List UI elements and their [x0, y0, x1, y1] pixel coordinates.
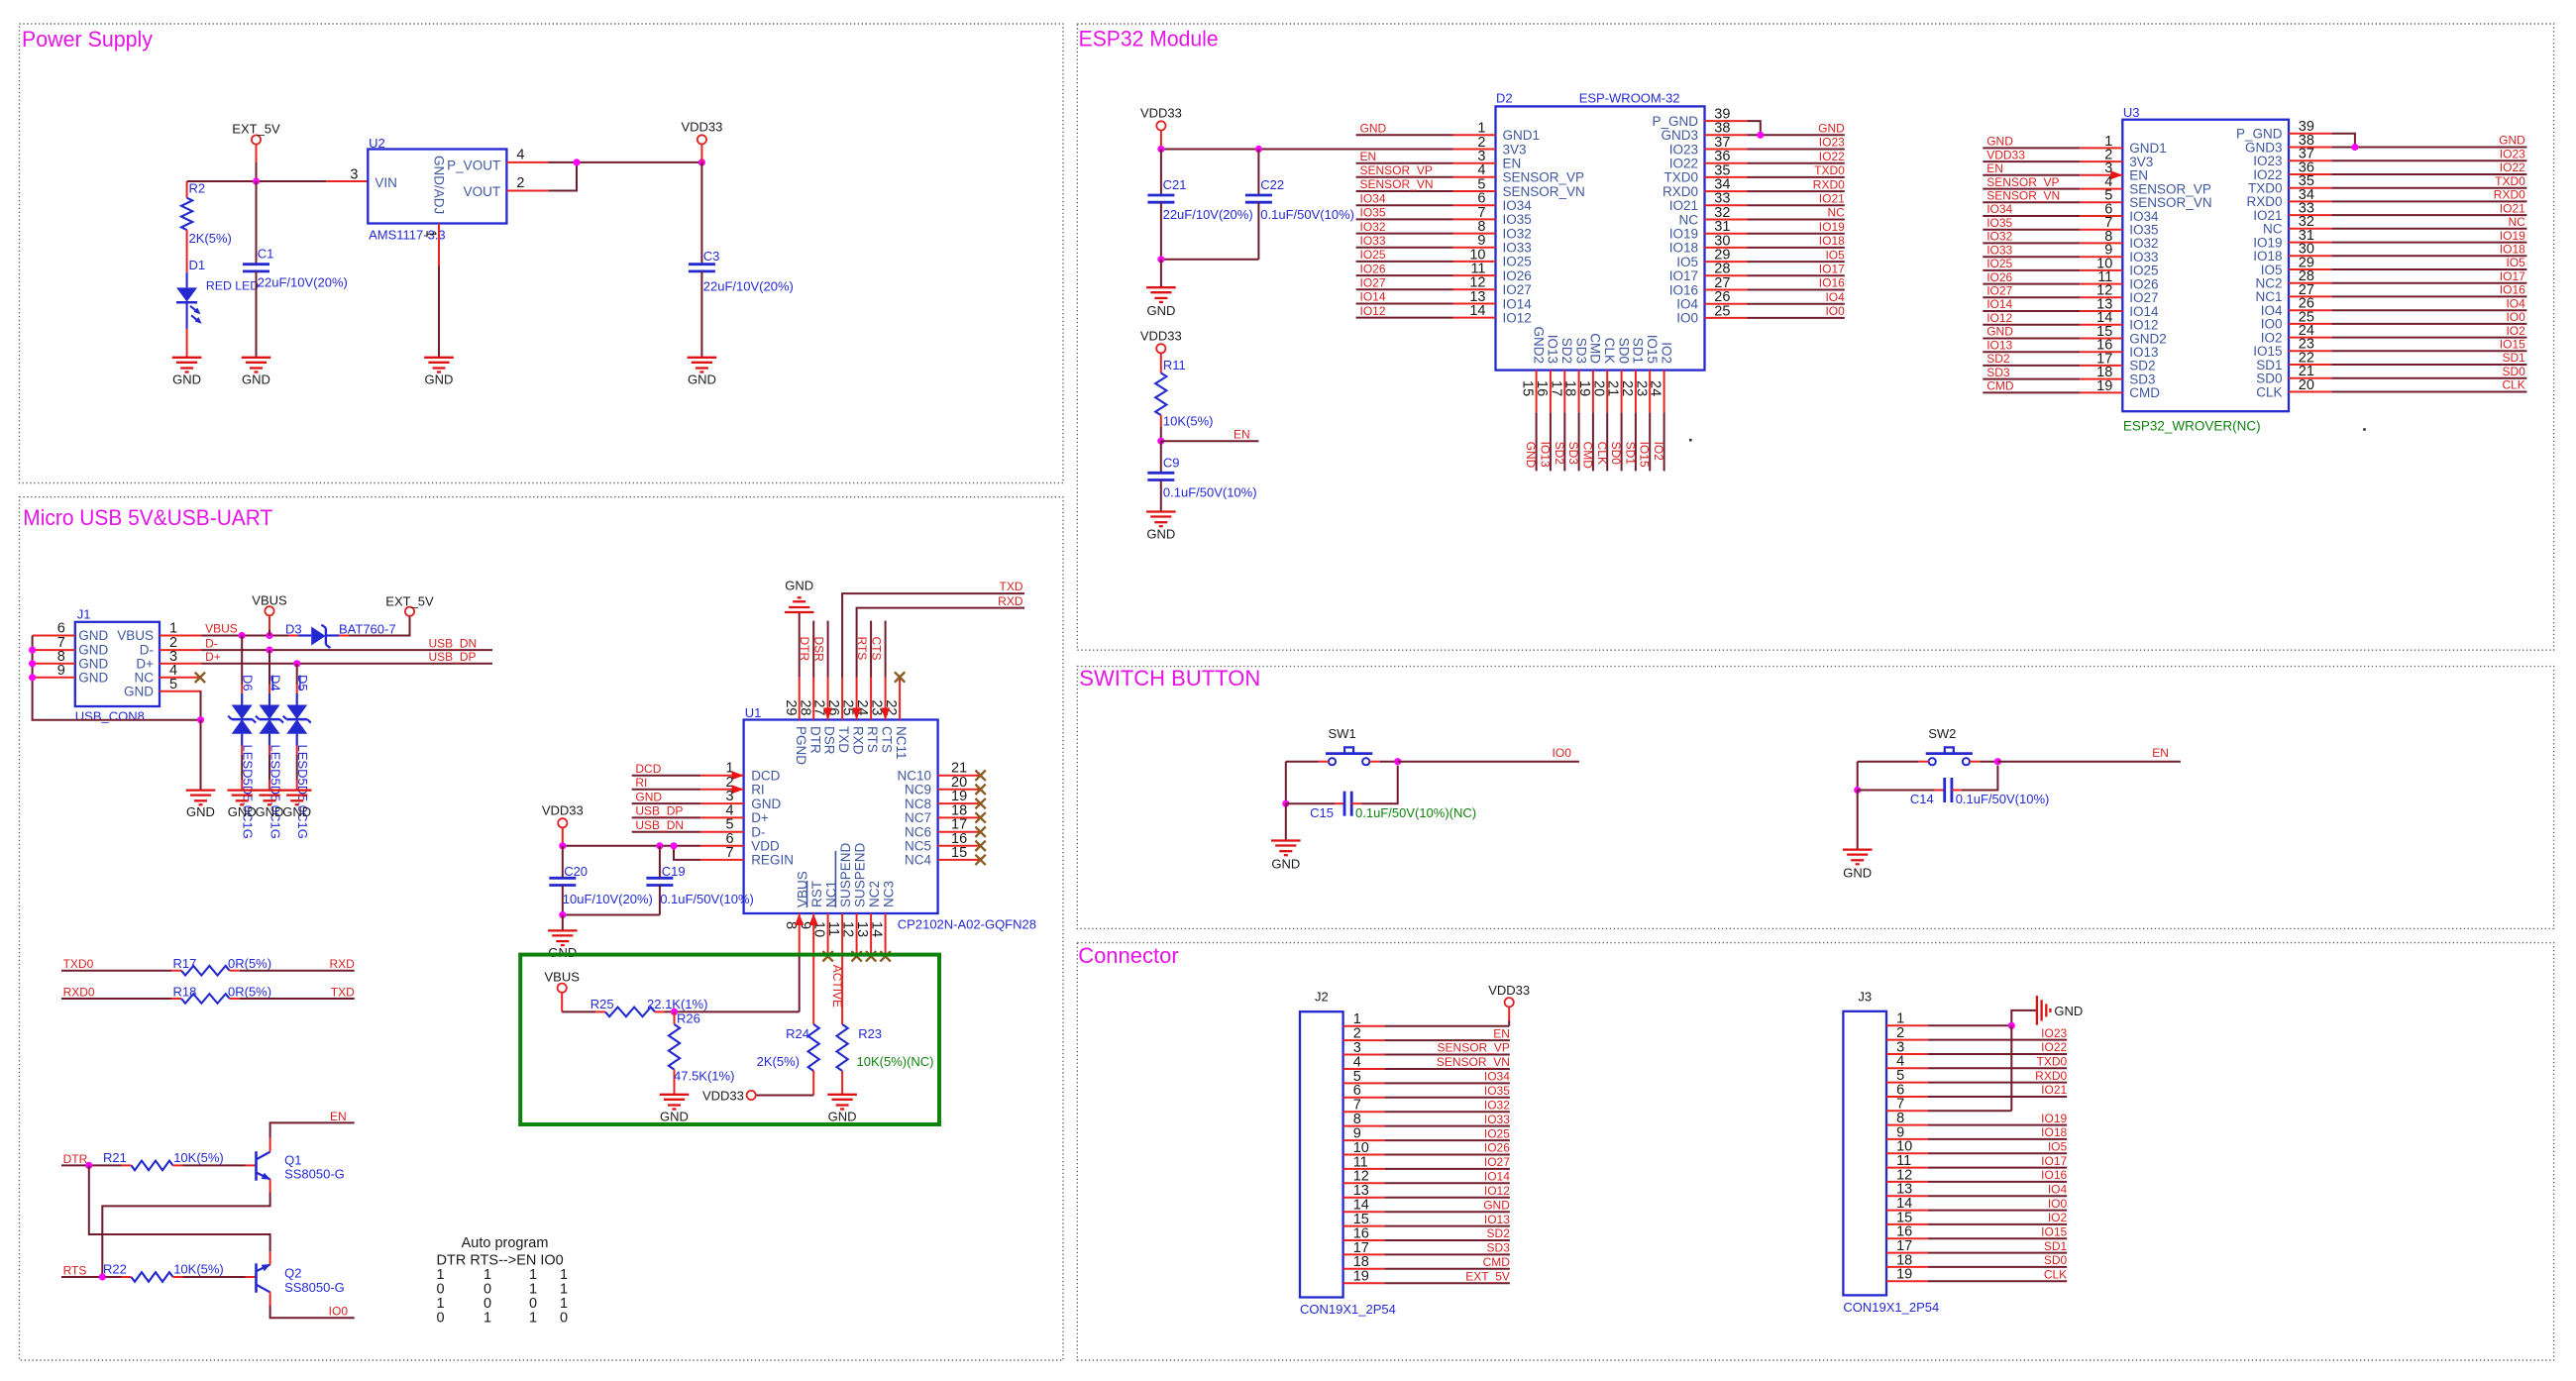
svg-text:IO2: IO2 [1659, 342, 1673, 364]
pin 5 of J2 [1343, 1082, 1385, 1084]
svg-text:CTS: CTS [870, 637, 884, 661]
input arrow on U3 pin 3 [2110, 170, 2122, 179]
wire IO26 (J2 pin 10) [1384, 1154, 1510, 1156]
wire CLK (D2 pin 20) [1606, 413, 1608, 472]
svg-text:R25: R25 [590, 997, 614, 1011]
svg-text:IO13: IO13 [1546, 335, 1560, 364]
wire SD1 (D2 pin 22) [1635, 413, 1637, 472]
svg-text:EXT_5V: EXT_5V [232, 121, 280, 136]
svg-text:IO35: IO35 [1503, 212, 1532, 227]
svg-text:P_VOUT: P_VOUT [447, 159, 500, 173]
svg-text:2K(5%): 2K(5%) [757, 1054, 800, 1069]
pin 1 of J3 [1886, 1024, 1928, 1026]
stray dot (D2) [1689, 439, 1692, 442]
highlight box (green) [520, 955, 939, 1124]
svg-text:GND: GND [785, 579, 813, 593]
svg-text:IO2: IO2 [1652, 442, 1665, 462]
svg-text:IO12: IO12 [1503, 310, 1532, 325]
pin 6 (GND) of J1 [33, 635, 75, 637]
svg-text:SENSOR_VN: SENSOR_VN [1503, 184, 1585, 199]
wire GND (D2 pin 38) [1748, 134, 1845, 136]
wire TXD0-RXD left [61, 970, 171, 972]
svg-text:SD1: SD1 [2256, 358, 2282, 372]
svg-text:Connector: Connector [1078, 943, 1179, 968]
pin 11 (IO26) of U3 [2080, 283, 2122, 285]
pin 3 (EN) of U3 [2080, 174, 2122, 176]
wire IO0 [1398, 761, 1579, 763]
wire U1 pin11 ACTIVE to R23 [841, 956, 843, 1024]
pin 17 of J2 [1343, 1253, 1385, 1255]
wire U1 pin9 to R24 [812, 956, 814, 1024]
svg-text:15: 15 [1520, 380, 1536, 396]
svg-text:D3: D3 [285, 622, 302, 637]
wire IO4 (U3 pin 26) [2331, 309, 2526, 311]
pin 11 (IO26) of D2 [1453, 274, 1496, 276]
svg-text:IO22: IO22 [2041, 1040, 2067, 1054]
svg-text:IO32: IO32 [1986, 230, 2012, 244]
svg-text:GND: GND [186, 804, 215, 819]
wire EN [1997, 761, 2180, 763]
pin 25 (RXD) of U1 [856, 678, 858, 720]
no-connect X on U1 pin 16 [975, 841, 985, 851]
svg-text:IO32: IO32 [1360, 220, 1386, 234]
wire C14 right up [1962, 766, 1998, 791]
pin 9 of J3 [1886, 1138, 1928, 1140]
svg-text:RXD: RXD [998, 594, 1023, 608]
no-connect X on U1 pin 22 [895, 672, 905, 682]
svg-text:IO14: IO14 [1986, 297, 2012, 311]
svg-text:D1: D1 [189, 258, 206, 272]
ground GND (D1) [172, 357, 202, 359]
ground GND (U1 PGND, inverted) [785, 611, 814, 613]
resistor R21 10K [122, 1164, 132, 1166]
pin 18 (SD3) of D2 [1578, 371, 1580, 413]
wire EXT_5V to C1 [256, 181, 258, 265]
svg-text:EN: EN [1493, 1026, 1510, 1040]
pin 39 (P_GND) of U3 [2289, 133, 2331, 135]
pin 18 of J3 [1886, 1266, 1928, 1268]
pin 7 (IO35) of U3 [2080, 229, 2122, 231]
wire RTS [61, 1276, 122, 1278]
pin 34 (RXD0) of U3 [2289, 200, 2331, 202]
pin 23 (IO15) of D2 [1649, 371, 1651, 413]
pin 15 (GND2) of U3 [2080, 338, 2122, 340]
svg-text:SD2: SD2 [1559, 338, 1574, 364]
svg-text:RI: RI [751, 783, 765, 797]
svg-text:VDD33: VDD33 [1986, 148, 2025, 161]
pin 24 (IO2) of D2 [1664, 371, 1665, 413]
wire IO32 (D2 pin 8) [1356, 233, 1453, 235]
section frame: SWITCH BUTTON [1077, 667, 2553, 929]
node P_GND junction [1757, 132, 1764, 139]
svg-text:SD1: SD1 [2502, 351, 2525, 365]
svg-text:D+: D+ [136, 656, 154, 671]
svg-text:RXD0: RXD0 [1813, 177, 1845, 191]
pin 25 (IO0) of U3 [2289, 323, 2331, 325]
svg-text:5: 5 [169, 677, 177, 692]
svg-text:10uF/10V(20%): 10uF/10V(20%) [563, 892, 653, 906]
svg-text:GND: GND [1146, 527, 1175, 542]
wire NC (U3 pin 32) [2331, 228, 2526, 230]
svg-text:P_GND: P_GND [1652, 114, 1698, 129]
pin 2 (3V3) of D2 [1453, 149, 1496, 151]
svg-text:RTS: RTS [865, 726, 880, 753]
wire IO25 (U3 pin 10) [1983, 269, 2080, 271]
svg-text:IO13: IO13 [1538, 442, 1552, 468]
svg-text:VBUS: VBUS [205, 622, 238, 636]
TVS diode D6 LESD5D5.0C1G [232, 705, 253, 720]
pin 19 (CMD) of U3 [2080, 391, 2122, 393]
wire D4 drop [268, 650, 270, 685]
node R26 junction [671, 1009, 678, 1015]
no-connect X on U1 pin 21 [975, 771, 985, 781]
svg-text:NC8: NC8 [905, 797, 931, 811]
wire IO17 (J3 pin 11) [1928, 1167, 2068, 1169]
wire SW2 to ground [1857, 791, 1859, 850]
svg-text:SENSOR_VN: SENSOR_VN [1986, 189, 2060, 203]
wire SW1 left [1286, 761, 1319, 763]
wire D6 drop [241, 636, 243, 686]
power flag VDD33 (power supply) [698, 135, 706, 144]
pin 27 (IO16) of D2 [1705, 289, 1748, 291]
svg-text:VDD33: VDD33 [702, 1089, 744, 1104]
svg-text:1: 1 [169, 621, 177, 637]
svg-text:C9: C9 [1163, 455, 1180, 470]
wire SD3 (J2 pin 17) [1384, 1253, 1510, 1255]
svg-text:IO4: IO4 [2506, 296, 2525, 310]
svg-text:CTS: CTS [880, 726, 895, 753]
pin 22 (SD1) of D2 [1635, 371, 1637, 413]
wire TXD0 (U3 pin 35) [2331, 187, 2526, 189]
wire RXD0-TXD left [61, 998, 171, 1000]
wire P_GND jog to GND3 [1748, 121, 1761, 135]
svg-text:TXD0: TXD0 [1664, 170, 1698, 185]
wire IO17 (D2 pin 28) [1748, 274, 1845, 276]
pin 14 of J3 [1886, 1210, 1928, 1212]
svg-text:IO27: IO27 [1360, 276, 1386, 290]
wire IO5 (J3 pin 10) [1928, 1152, 2068, 1154]
svg-text:IO16: IO16 [1669, 282, 1698, 297]
pin 13 of J2 [1343, 1197, 1385, 1199]
wire IO14 (U3 pin 13) [1983, 310, 2080, 312]
wire SW1 right to junction [1380, 761, 1398, 763]
pin 1 (GND1) of U3 [2080, 147, 2122, 149]
svg-text:R23: R23 [858, 1026, 882, 1041]
svg-text:EN: EN [1503, 157, 1522, 171]
node VBUS junction flag [266, 632, 272, 639]
capacitor C15 [1286, 802, 1335, 804]
svg-text:IO17: IO17 [1819, 263, 1845, 276]
pin 35 (TXD0) of U3 [2289, 187, 2331, 189]
pin 32 (NC) of D2 [1705, 219, 1748, 221]
node VDD33 junction [698, 159, 705, 165]
wire EXT_5V (J2 pin 19) [1384, 1282, 1510, 1284]
wire VDD33 (U3 pin 2) [1983, 160, 2080, 162]
svg-text:U1: U1 [745, 705, 762, 720]
svg-text:ESP32_WROVER(NC): ESP32_WROVER(NC) [2123, 419, 2261, 434]
wire RXD0-TXD right [240, 998, 355, 1000]
svg-text:25: 25 [840, 699, 856, 715]
wire SD0 (J3 pin 18) [1928, 1266, 2068, 1268]
wire IO25 (J2 pin 9) [1384, 1139, 1510, 1141]
svg-text:USB_CON8: USB_CON8 [75, 709, 145, 724]
wire IO0 (U3 pin 25) [2331, 323, 2526, 325]
ground GND (C1) [242, 357, 271, 359]
wire GND (U3 pin 15) [1983, 338, 2080, 340]
wire IO21 (D2 pin 33) [1748, 204, 1845, 206]
wire IO18 (D2 pin 30) [1748, 247, 1845, 249]
svg-text:NC: NC [1827, 206, 1845, 220]
node EXT_5V junction [253, 177, 260, 184]
node junction (C21 bottom) [1157, 256, 1164, 263]
wire RXD0 (U3 pin 34) [2331, 200, 2526, 202]
stray dot (U3) [2363, 428, 2366, 431]
pin 14 of J2 [1343, 1211, 1385, 1213]
pin 34 (RXD0) of D2 [1705, 190, 1748, 192]
wire IO35 (U3 pin 7) [1983, 229, 2080, 231]
svg-text:BAT760-7: BAT760-7 [339, 622, 396, 637]
wire IO13 (U3 pin 16) [1983, 351, 2080, 353]
pin 26 (IO4) of U3 [2289, 309, 2331, 311]
svg-text:ESP-WROOM-32: ESP-WROOM-32 [1579, 91, 1680, 106]
pin 17 (NC6) of U1 [938, 831, 981, 833]
svg-text:SD3: SD3 [1487, 1241, 1511, 1255]
node DTR junction [85, 1162, 92, 1169]
svg-text:22uF/10V(20%): 22uF/10V(20%) [258, 274, 348, 289]
node junction (C22) [1255, 146, 1262, 153]
wire SD2 (J2 pin 16) [1384, 1239, 1510, 1241]
svg-text:GND: GND [2054, 1004, 2083, 1018]
svg-text:IO0: IO0 [1825, 304, 1845, 318]
pin 2 (D-) of J1 [160, 649, 202, 651]
power flag VBUS [265, 606, 273, 615]
pin 28 (DTR) of U1 [812, 678, 814, 720]
transistor Q1 SS8050-G [255, 1151, 258, 1181]
node junction right of SW2 [1994, 758, 2001, 765]
pin 20 (CLK) of D2 [1606, 371, 1608, 413]
wire IO19 (D2 pin 31) [1748, 233, 1845, 235]
pin 10 (IO25) of U3 [2080, 269, 2122, 271]
svg-text:22uF/10V(20%): 22uF/10V(20%) [1163, 207, 1253, 222]
pin 17 (SD2) of U3 [2080, 365, 2122, 367]
wire SD1 (J3 pin 17) [1928, 1252, 2068, 1254]
wire SD0 (U3 pin 21) [2331, 377, 2526, 379]
wire TXD0 (J3 pin 4) [1928, 1067, 2068, 1069]
svg-text:USB_DN: USB_DN [635, 818, 684, 832]
pin 15 of J3 [1886, 1223, 1928, 1225]
svg-text:C19: C19 [662, 864, 686, 879]
wire GND (D2 pin 1) [1356, 134, 1453, 136]
svg-text:GND: GND [1483, 1198, 1510, 1212]
svg-text:10K(5%)(NC): 10K(5%)(NC) [857, 1054, 934, 1069]
svg-text:IO35: IO35 [1360, 206, 1386, 220]
pin 35 (TXD0) of D2 [1705, 176, 1748, 178]
svg-text:IO22: IO22 [1669, 157, 1698, 171]
ground GND (SW2) [1843, 848, 1873, 850]
svg-text:IO25: IO25 [1484, 1126, 1510, 1140]
svg-text:U2: U2 [369, 136, 385, 151]
svg-text:IO35: IO35 [1986, 216, 2012, 230]
connector J3 CON19X1_2P54 [1843, 1011, 1886, 1296]
pin 19 (NC8) of U1 [938, 802, 981, 804]
svg-text:EN: EN [2129, 168, 2148, 183]
svg-text:9: 9 [57, 663, 65, 679]
svg-text:CMD: CMD [1986, 379, 2014, 393]
svg-text:Auto program: Auto program [462, 1235, 549, 1251]
svg-text:23: 23 [1633, 380, 1649, 396]
svg-text:Micro USB 5V&USB-UART: Micro USB 5V&USB-UART [23, 505, 272, 530]
no-connect X on J1 pin 4 [195, 673, 205, 683]
svg-text:IO21: IO21 [1669, 198, 1698, 213]
wire RTS vertical [870, 621, 872, 678]
svg-text:IO17: IO17 [2500, 269, 2525, 283]
pin 25 (IO0) of D2 [1705, 317, 1748, 319]
svg-text:16: 16 [1534, 380, 1550, 396]
pin 16 (IO13) of U3 [2080, 351, 2122, 353]
pin 15 of J2 [1343, 1225, 1385, 1227]
svg-text:IO16: IO16 [2041, 1168, 2067, 1182]
svg-text:GND: GND [228, 804, 257, 819]
pin 2 of J3 [1886, 1039, 1928, 1041]
svg-text:GND: GND [828, 1109, 857, 1123]
power flag EXT_5V (USB) [405, 607, 414, 616]
wire IO34 (D2 pin 6) [1356, 204, 1453, 206]
svg-text:IO34: IO34 [1986, 202, 2012, 216]
ic U1 CP2102N-A02-GQFN28 [744, 720, 938, 914]
svg-text:IO19: IO19 [2500, 229, 2525, 243]
resistor R17 0R [171, 970, 181, 972]
svg-text:NC1: NC1 [2255, 289, 2282, 304]
svg-text:0.1uF/50V(10%): 0.1uF/50V(10%) [660, 892, 754, 906]
wire EN [1161, 440, 1259, 442]
node P_VOUT junction [573, 159, 580, 165]
svg-text:VBUS: VBUS [544, 969, 580, 984]
svg-text:SD0: SD0 [2044, 1253, 2068, 1267]
pin 16 of J2 [1343, 1239, 1385, 1241]
wire EN (D2 pin 3) [1356, 162, 1453, 164]
pin 5 (SENSOR_VN) of U3 [2080, 201, 2122, 203]
wire IO0 (D2 pin 25) [1748, 317, 1845, 319]
pin 12 of J3 [1886, 1181, 1928, 1183]
svg-text:GND: GND [1986, 325, 2013, 339]
svg-text:IO19: IO19 [1669, 227, 1698, 242]
wire IO26 (U3 pin 11) [1983, 283, 2080, 285]
pin 3 (EN) of D2 [1453, 162, 1496, 164]
ic U3 ESP32_WROVER(NC) [2122, 120, 2289, 412]
wire R22 to Q2 base [183, 1276, 246, 1278]
svg-text:D4: D4 [268, 675, 283, 691]
pin 8 of J2 [1343, 1125, 1385, 1127]
svg-text:0.1uF/50V(10%): 0.1uF/50V(10%) [1163, 485, 1257, 500]
wire SW1 to ground [1285, 803, 1287, 840]
svg-text:GND: GND [172, 372, 201, 386]
pin 36 (IO22) of D2 [1705, 162, 1748, 164]
svg-text:18: 18 [1562, 380, 1578, 396]
svg-text:NC3: NC3 [881, 881, 896, 907]
svg-text:GND: GND [1146, 303, 1175, 318]
svg-text:7: 7 [726, 845, 734, 861]
svg-text:IO0: IO0 [1553, 746, 1572, 760]
pin 31 (IO19) of U3 [2289, 242, 2331, 244]
svg-text:GND: GND [1843, 866, 1872, 881]
svg-text:CON19X1_2P54: CON19X1_2P54 [1843, 1300, 1939, 1315]
wire IO0 (J3 pin 14) [1928, 1210, 2068, 1212]
svg-text:IO16: IO16 [1819, 276, 1845, 290]
svg-text:6: 6 [57, 621, 65, 637]
svg-text:GND: GND [660, 1109, 689, 1123]
svg-text:EN: EN [1986, 161, 2003, 175]
svg-text:IO34: IO34 [1360, 191, 1386, 205]
pin 4 (P_VOUT) [506, 161, 548, 163]
capacitor C14 [1858, 790, 1935, 792]
wire IO35 (D2 pin 7) [1356, 218, 1453, 220]
wire IO23 (J3 pin 2) [1928, 1039, 2068, 1041]
connector J2 CON19X1_2P54 [1300, 1011, 1343, 1297]
svg-text:D+: D+ [205, 650, 221, 664]
no-connect X on U1 pin 17 [975, 827, 985, 837]
svg-text:GND: GND [282, 804, 311, 819]
svg-text:0: 0 [560, 1311, 568, 1327]
wire GND pin5 to bus [200, 691, 202, 720]
svg-text:IO27: IO27 [1503, 282, 1532, 297]
pin 20 (NC9) of U1 [938, 789, 981, 791]
svg-text:10K(5%): 10K(5%) [173, 1261, 224, 1276]
svg-text:SD3: SD3 [1566, 442, 1580, 466]
svg-text:RXD0: RXD0 [2035, 1069, 2067, 1083]
svg-text:J2: J2 [1315, 990, 1329, 1005]
wire IO13 (J2 pin 15) [1384, 1225, 1510, 1227]
svg-text:RI: RI [635, 776, 647, 790]
wire VDD33 to C3 [700, 162, 702, 265]
svg-text:SS8050-G: SS8050-G [284, 1167, 345, 1182]
wire Q1 emitter crossover to RTS [102, 1193, 269, 1278]
svg-text:DTR: DTR [798, 637, 811, 662]
wire VIN [326, 180, 368, 182]
pin 10 (IO25) of D2 [1453, 261, 1496, 263]
svg-text:IO15: IO15 [1638, 442, 1652, 468]
svg-text:SD2: SD2 [1553, 442, 1566, 466]
pin 2 of J2 [1343, 1039, 1385, 1041]
svg-text:IO27: IO27 [1484, 1155, 1510, 1169]
svg-text:GND: GND [1360, 122, 1387, 136]
svg-text:CLK: CLK [2502, 378, 2524, 392]
svg-text:GND: GND [78, 670, 108, 685]
svg-text:CON19X1_2P54: CON19X1_2P54 [1300, 1302, 1396, 1317]
wire IO33 (U3 pin 9) [1983, 256, 2080, 258]
svg-text:R26: R26 [677, 1010, 700, 1025]
svg-text:20: 20 [2299, 377, 2314, 393]
node D+ junction D5 [293, 660, 300, 667]
node GND bus junction [197, 716, 204, 723]
wire TXD [842, 593, 1024, 677]
svg-text:D-: D- [205, 636, 218, 650]
pin 8 of J3 [1886, 1124, 1928, 1126]
svg-text:22: 22 [1619, 380, 1635, 396]
svg-text:NC5: NC5 [905, 839, 931, 854]
wire D+ / USB_DP [202, 663, 493, 665]
pin 33 (IO21) of D2 [1705, 204, 1748, 206]
svg-text:VDD33: VDD33 [1140, 328, 1182, 343]
wire IO14 (J2 pin 12) [1384, 1182, 1510, 1184]
wire SENSOR_VP (J2 pin 3) [1384, 1054, 1510, 1056]
node D- junction D4 [266, 647, 272, 654]
svg-text:GND: GND [1524, 442, 1538, 469]
node VBUS junction D6 [239, 632, 246, 639]
svg-text:C14: C14 [1910, 792, 1934, 806]
svg-text:1: 1 [483, 1311, 491, 1327]
wire P_GND jog to GND3 (U3) [2331, 134, 2355, 148]
wire J1 ground bus [33, 636, 201, 720]
